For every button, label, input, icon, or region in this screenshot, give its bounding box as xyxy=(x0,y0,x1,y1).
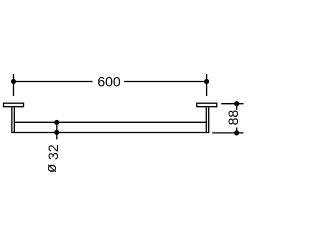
svg-text:ø: ø xyxy=(43,164,60,173)
dot diameter top xyxy=(54,120,59,125)
dot 88 bottom xyxy=(234,130,239,135)
dimension line 88 (vertical) xyxy=(236,104,238,133)
dot 600 left xyxy=(11,79,16,84)
halo 88 xyxy=(226,110,240,128)
wall plate left xyxy=(4,103,24,107)
tick line 88 bottom xyxy=(212,132,243,134)
extension line left xyxy=(13,74,15,96)
wall plate right xyxy=(197,103,217,107)
tick line 88 top xyxy=(221,103,243,105)
svg-text:32: 32 xyxy=(45,144,61,160)
dimension line 600 (right segment) xyxy=(124,81,207,83)
bar bottom edge xyxy=(12,132,209,134)
post right (vertical lines) xyxy=(206,107,208,133)
dot diameter bottom xyxy=(54,130,59,135)
bar top edge xyxy=(14,121,206,123)
dot 600 right xyxy=(204,79,209,84)
dimension line 600 (left segment) xyxy=(14,81,93,83)
extension line right xyxy=(206,74,208,96)
dot 88 top xyxy=(234,101,239,106)
post left (vertical lines) xyxy=(12,107,15,133)
diameter leader line xyxy=(56,122,58,139)
svg-text:88: 88 xyxy=(225,110,241,126)
svg-text:600: 600 xyxy=(97,73,121,89)
